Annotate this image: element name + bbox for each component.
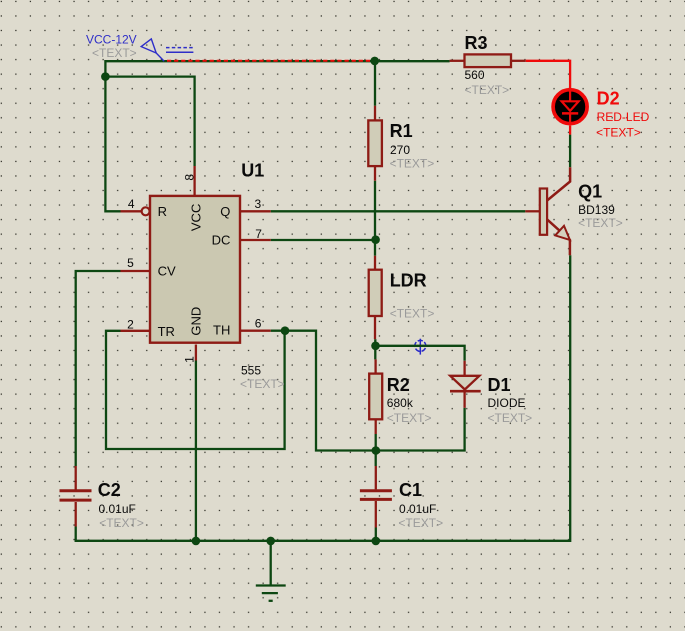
svg-text:Q1: Q1 (578, 181, 602, 201)
svg-text:<TEXT>: <TEXT> (398, 516, 443, 530)
svg-text:555: 555 (241, 364, 261, 378)
svg-text:R3: R3 (465, 33, 488, 53)
svg-text:CV: CV (158, 264, 176, 279)
svg-text:<TEXT>: <TEXT> (465, 83, 510, 97)
svg-text:C1: C1 (399, 480, 422, 500)
svg-text:2: 2 (127, 317, 134, 331)
svg-text:DIODE: DIODE (488, 396, 526, 410)
svg-text:0.01uF: 0.01uF (99, 502, 136, 516)
svg-text:<TEXT>: <TEXT> (578, 216, 623, 230)
svg-text:1: 1 (183, 356, 197, 363)
svg-text:4: 4 (128, 197, 135, 211)
svg-text:270: 270 (390, 143, 410, 157)
svg-text:U1: U1 (241, 160, 264, 180)
svg-text:RED-LED: RED-LED (597, 110, 650, 124)
svg-text:<TEXT>: <TEXT> (240, 377, 285, 391)
svg-text:5: 5 (127, 256, 134, 270)
svg-text:LDR: LDR (390, 271, 427, 291)
svg-text:0.01uF: 0.01uF (399, 502, 436, 516)
svg-text:<TEXT>: <TEXT> (387, 411, 432, 425)
svg-text:<TEXT>: <TEXT> (390, 156, 435, 170)
svg-text:VCC: VCC (188, 204, 203, 231)
svg-text:<TEXT>: <TEXT> (488, 411, 533, 425)
svg-text:R2: R2 (387, 375, 410, 395)
svg-text:560: 560 (465, 68, 485, 82)
svg-text:7: 7 (255, 227, 262, 241)
svg-text:R: R (158, 204, 167, 219)
svg-text:DC: DC (212, 233, 231, 248)
svg-text:TR: TR (158, 324, 175, 339)
svg-text:<TEXT>: <TEXT> (99, 516, 144, 530)
svg-text:TH: TH (213, 323, 230, 338)
svg-text:<TEXT>: <TEXT> (92, 46, 137, 60)
svg-text:Q: Q (220, 204, 230, 219)
svg-text:<TEXT>: <TEXT> (596, 125, 641, 139)
svg-text:C2: C2 (98, 480, 121, 500)
svg-text:BD139: BD139 (578, 203, 615, 217)
svg-text:<TEXT>: <TEXT> (390, 307, 435, 321)
svg-text:3: 3 (255, 197, 262, 211)
svg-text:8: 8 (183, 174, 197, 181)
svg-text:D1: D1 (488, 375, 511, 395)
svg-text:6: 6 (255, 317, 262, 331)
svg-text:GND: GND (188, 307, 203, 336)
svg-text:D2: D2 (597, 89, 620, 109)
svg-text:R1: R1 (390, 121, 413, 141)
svg-text:680k: 680k (387, 396, 414, 410)
svg-text:VCC-12V: VCC-12V (86, 32, 137, 46)
